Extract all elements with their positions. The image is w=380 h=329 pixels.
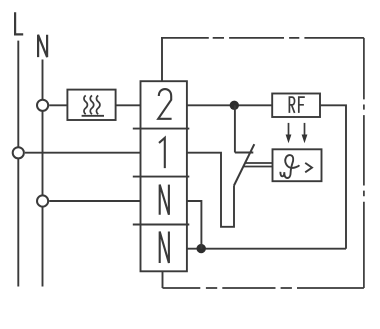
arrow 1 — [288, 123, 290, 136]
terminal divider 1 — [133, 128, 190, 130]
wire N to terminal N3 — [49, 200, 140, 202]
heater box — [67, 90, 115, 120]
wire L vertical — [17, 41, 19, 287]
wire terminal 2 to RF — [187, 104, 272, 106]
label RF — [289, 97, 294, 113]
label terminal N3 — [160, 185, 169, 215]
switch fixed contact — [235, 105, 253, 152]
wire N vertical — [42, 60, 44, 287]
label L — [15, 12, 23, 34]
wire heater to terminal 2 — [116, 104, 141, 106]
terminal block outline — [141, 81, 187, 271]
heater wave 3 — [96, 95, 99, 114]
terminal circle N-lower — [37, 195, 48, 206]
enclosure stub top — [161, 38, 163, 81]
wire N return — [187, 248, 346, 250]
label N — [38, 35, 47, 57]
terminal divider 2 — [133, 176, 190, 178]
label terminal 2 — [158, 89, 171, 119]
wire RF to N return — [320, 105, 346, 248]
thermostat symbol theta — [280, 155, 299, 178]
junction dot A — [230, 101, 239, 110]
switch blade — [234, 144, 254, 185]
enclosure top border dash-dot — [161, 37, 364, 39]
mechanical link — [243, 163, 272, 167]
thermostat symbol greater-than — [305, 163, 312, 172]
label terminal N4 — [160, 232, 169, 264]
arrow 2 — [304, 123, 306, 136]
wire circle to heater — [49, 104, 67, 106]
enclosure bottom border dash-dot — [163, 287, 364, 289]
thermostat box — [273, 149, 322, 181]
enclosure right border dash-dot — [363, 38, 365, 288]
wire terminal 1 to switch — [187, 153, 234, 227]
junction dot B — [197, 244, 206, 253]
RF box — [272, 94, 320, 118]
wire terminal N3 to node B — [187, 201, 202, 249]
wire L to terminal 1 — [25, 152, 141, 154]
terminal circle N-heater — [37, 100, 48, 111]
heater wave 1 — [84, 95, 87, 114]
enclosure stub bottom — [162, 271, 164, 288]
terminal circle L — [13, 147, 24, 158]
terminal divider 3 — [133, 224, 190, 226]
label terminal 1 — [159, 138, 165, 168]
heater wave 2 — [90, 95, 93, 114]
heater underline — [82, 115, 104, 117]
